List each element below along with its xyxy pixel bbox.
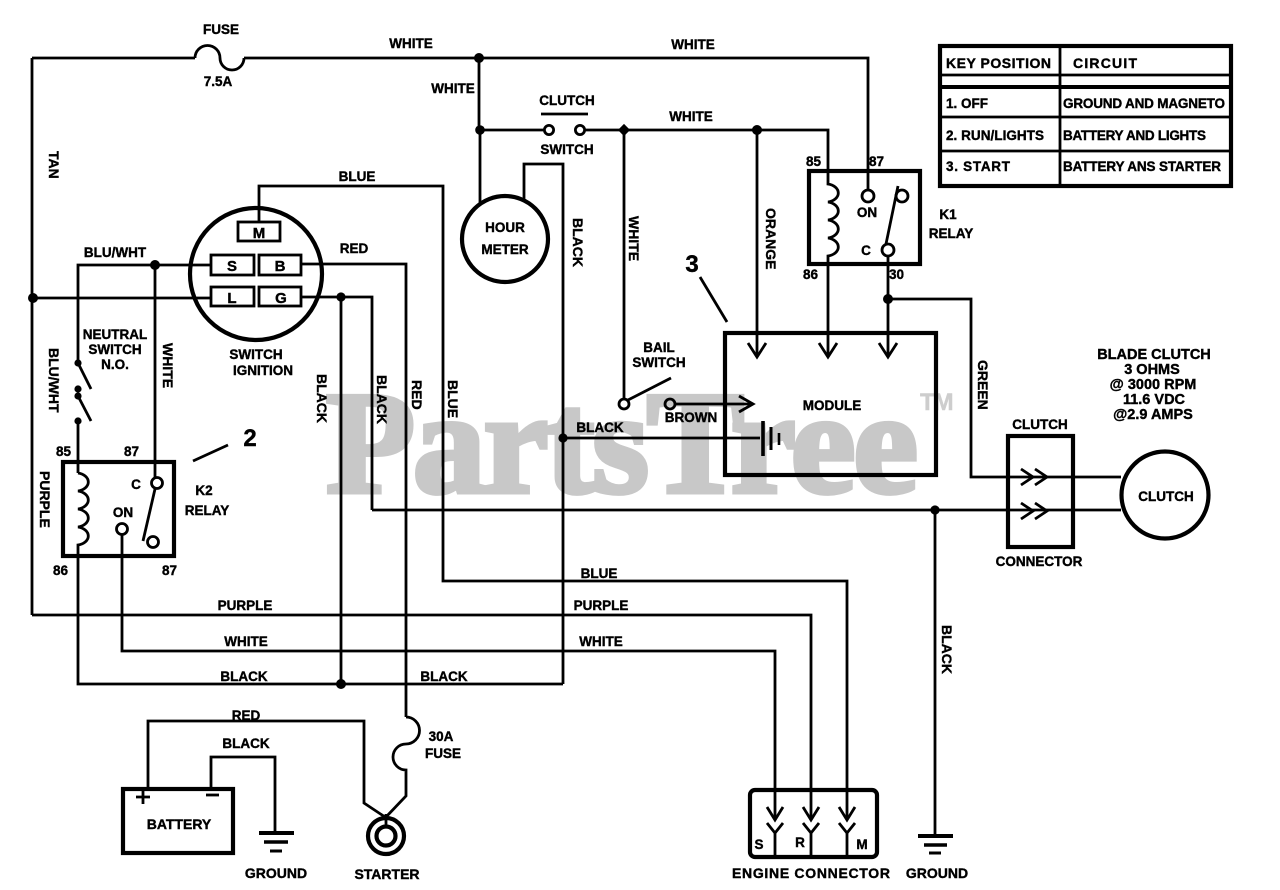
terminal S box xyxy=(211,255,254,275)
svg-text:87: 87 xyxy=(124,444,139,459)
svg-text:WHITE: WHITE xyxy=(579,634,623,649)
terminal M box xyxy=(238,222,280,242)
svg-text:NEUTRAL: NEUTRAL xyxy=(83,327,148,342)
svg-text:KEY POSITION: KEY POSITION xyxy=(946,55,1051,71)
svg-text:ORANGE: ORANGE xyxy=(763,208,779,269)
connector chevrons black line xyxy=(1021,503,1047,519)
wire blue from M up and right xyxy=(259,186,847,820)
wire K1 30 down xyxy=(887,256,890,355)
svg-text:GREEN: GREEN xyxy=(975,360,991,410)
svg-text:@ 3000 RPM: @ 3000 RPM xyxy=(1110,377,1197,393)
svg-text:CLUTCH: CLUTCH xyxy=(1138,489,1194,504)
svg-text:WHITE: WHITE xyxy=(669,109,713,124)
bail switch contact xyxy=(619,378,671,409)
engine connector pin S xyxy=(754,807,783,855)
wire top white bus right to K1 87 xyxy=(244,58,868,190)
svg-text:ENGINE CONNECTOR: ENGINE CONNECTOR xyxy=(732,865,890,881)
svg-text:PURPLE: PURPLE xyxy=(218,598,273,613)
svg-text:86: 86 xyxy=(53,563,69,578)
wire K2 86 black down right xyxy=(78,556,563,684)
node junction 30/green xyxy=(883,294,893,304)
clutch connector box xyxy=(1008,436,1073,547)
wire black to module ground xyxy=(563,437,760,440)
wire B to red vertical xyxy=(301,264,406,717)
svg-text:BATTERY: BATTERY xyxy=(147,816,212,832)
svg-text:RELAY: RELAY xyxy=(929,226,974,241)
wire top white bus xyxy=(32,57,195,60)
starter M1 xyxy=(354,814,419,882)
svg-text:PURPLE: PURPLE xyxy=(574,598,629,613)
svg-text:BLUE: BLUE xyxy=(581,566,618,581)
wire green to clutch connector xyxy=(888,299,1121,477)
ground engine xyxy=(906,836,968,881)
node junction S white tap xyxy=(150,260,160,270)
wire black down to engine ground xyxy=(934,510,937,836)
engine connector pin R xyxy=(795,807,819,855)
svg-text:METER: METER xyxy=(481,242,529,257)
svg-text:STARTER: STARTER xyxy=(354,866,419,882)
wire K2 ON white down right xyxy=(122,535,775,820)
svg-text:BLACK: BLACK xyxy=(314,374,330,423)
svg-text:BLU/WHT: BLU/WHT xyxy=(84,245,147,260)
key position table xyxy=(940,46,1231,186)
svg-text:CIRCUIT: CIRCUIT xyxy=(1073,55,1137,71)
svg-text:RED: RED xyxy=(409,380,425,410)
svg-text:GROUND: GROUND xyxy=(245,865,307,881)
svg-text:BROWN: BROWN xyxy=(665,410,718,425)
ground battery xyxy=(245,833,307,881)
node junction G black tap xyxy=(336,292,345,301)
svg-text:N.O.: N.O. xyxy=(101,357,129,372)
wire black row to clutch connector xyxy=(372,509,1121,512)
watermark PartsTree xyxy=(326,362,953,524)
svg-text:87: 87 xyxy=(162,563,177,578)
svg-text:WHITE: WHITE xyxy=(160,343,176,388)
relay K1 C terminal xyxy=(882,244,894,256)
svg-text:S: S xyxy=(754,837,763,852)
relay K1 ON terminal xyxy=(862,190,874,202)
svg-text:S: S xyxy=(227,258,237,275)
neutral switch contacts xyxy=(74,359,91,424)
svg-text:87: 87 xyxy=(869,154,884,169)
ignition switch circle xyxy=(190,208,322,340)
svg-text:BLUE: BLUE xyxy=(445,380,461,418)
svg-text:CLUTCH: CLUTCH xyxy=(539,93,595,108)
relay K2 arm xyxy=(143,489,155,541)
connector chevrons green line xyxy=(1021,469,1047,485)
wire clutch switch to K1 85 xyxy=(585,130,828,172)
wire neutral switch to K2 85 xyxy=(77,421,80,473)
svg-text:3. START: 3. START xyxy=(946,159,1011,174)
wire red battery row xyxy=(148,721,385,817)
svg-text:K2: K2 xyxy=(195,483,212,498)
arrowhead 86 into module xyxy=(819,343,837,357)
svg-text:WHITE: WHITE xyxy=(626,216,642,261)
label 3 pointer xyxy=(700,277,727,322)
svg-text:SWITCH: SWITCH xyxy=(88,342,141,357)
svg-text:BLACK: BLACK xyxy=(570,218,586,267)
svg-text:WHITE: WHITE xyxy=(389,36,433,51)
label 2 pointer xyxy=(193,445,228,461)
svg-text:30A: 30A xyxy=(429,729,454,744)
wire hour meter feed xyxy=(479,130,482,204)
svg-text:30: 30 xyxy=(889,267,904,282)
svg-text:GROUND: GROUND xyxy=(906,865,968,881)
node junction black module ground xyxy=(558,433,567,442)
svg-text:1. OFF: 1. OFF xyxy=(946,96,988,111)
svg-text:85: 85 xyxy=(56,444,72,459)
svg-text:BLACK: BLACK xyxy=(220,669,267,684)
wire orange down to module xyxy=(756,130,759,355)
svg-text:BLACK: BLACK xyxy=(576,420,623,435)
svg-text:3 OHMS: 3 OHMS xyxy=(1124,362,1180,378)
wire black from G junction down xyxy=(340,297,343,684)
svg-text:WHITE: WHITE xyxy=(224,634,268,649)
wire white drop to clutch switch row xyxy=(479,58,544,130)
svg-text:FUSE: FUSE xyxy=(425,746,461,761)
svg-text:BLACK: BLACK xyxy=(374,375,390,424)
fuse F1 7.5A symbol xyxy=(195,46,244,71)
svg-text:GROUND AND MAGNETO: GROUND AND MAGNETO xyxy=(1063,96,1225,111)
relay K2 C terminal xyxy=(152,478,163,489)
fuse F2 30A symbol xyxy=(386,717,420,817)
svg-text:RED: RED xyxy=(232,708,261,723)
svg-text:SWITCH: SWITCH xyxy=(229,347,282,362)
svg-text:ON: ON xyxy=(857,205,877,220)
wire hour meter black loop down xyxy=(524,164,563,684)
svg-text:WHITE: WHITE xyxy=(671,37,715,52)
wire left TAN border down to purple row xyxy=(31,58,34,615)
label BLADE CLUTCH block xyxy=(1097,347,1211,423)
svg-text:2. RUN/LIGHTS: 2. RUN/LIGHTS xyxy=(946,128,1044,143)
svg-text:BATTERY AND LIGHTS: BATTERY AND LIGHTS xyxy=(1063,128,1206,143)
wire left border to L xyxy=(33,297,211,300)
node junction orange tap xyxy=(752,125,762,135)
svg-text:HOUR: HOUR xyxy=(485,220,525,235)
wire blu/wht to S xyxy=(78,265,211,363)
svg-text:TAN: TAN xyxy=(46,151,62,179)
svg-text:CLUTCH: CLUTCH xyxy=(1012,417,1068,432)
svg-text:R: R xyxy=(795,835,805,850)
arrowhead orange into module xyxy=(748,343,766,357)
svg-text:BAIL: BAIL xyxy=(643,340,675,355)
hour meter HM1 xyxy=(462,196,548,282)
arrowhead 30 into module xyxy=(879,343,897,357)
wire purple row xyxy=(32,615,811,820)
svg-text:IGNITION: IGNITION xyxy=(233,363,293,378)
wire white down to bail switch xyxy=(623,130,626,398)
ground symbol in module xyxy=(763,421,779,456)
svg-text:L: L xyxy=(227,290,236,307)
svg-text:B: B xyxy=(275,258,286,275)
relay K1 box xyxy=(809,171,920,264)
module U1 box xyxy=(725,333,936,475)
terminal B box xyxy=(259,255,301,275)
clutch circle xyxy=(1122,452,1209,539)
svg-text:K1: K1 xyxy=(939,207,957,222)
svg-text:7.5A: 7.5A xyxy=(204,74,233,89)
svg-text:BATTERY ANS STARTER: BATTERY ANS STARTER xyxy=(1063,159,1221,174)
svg-text:BLACK: BLACK xyxy=(222,736,269,751)
svg-text:BLUE: BLUE xyxy=(339,169,376,184)
svg-text:11.6 VDC: 11.6 VDC xyxy=(1123,392,1186,408)
svg-text:C: C xyxy=(861,243,871,258)
battery BT1 box xyxy=(123,789,233,853)
relay K1 NO terminal xyxy=(896,190,908,202)
svg-text:RED: RED xyxy=(340,241,369,256)
wire G to black verticals xyxy=(301,297,372,510)
terminal G box xyxy=(259,287,301,307)
relay K2 NO terminal xyxy=(148,537,159,548)
terminal L box xyxy=(211,287,254,307)
wire K1 86 to module arrow xyxy=(827,264,830,355)
engine connector pin M xyxy=(839,807,868,855)
engine connector box xyxy=(750,790,877,857)
node junction top white xyxy=(474,53,484,63)
svg-text:FUSE: FUSE xyxy=(203,22,239,37)
svg-text:PURPLE: PURPLE xyxy=(37,471,53,528)
svg-text:ON: ON xyxy=(113,505,133,520)
wire white down to K2 C xyxy=(154,265,157,477)
svg-text:M: M xyxy=(253,225,266,242)
relay K2 ON terminal xyxy=(117,524,128,535)
svg-text:BLU/WHT: BLU/WHT xyxy=(46,348,62,413)
label NEUTRAL SWITCH N.O. xyxy=(83,327,148,372)
node junction white/bail xyxy=(618,124,630,136)
svg-text:CONNECTOR: CONNECTOR xyxy=(996,554,1083,569)
relay K2 box xyxy=(63,462,174,556)
node junction black row xyxy=(336,679,346,689)
svg-text:WHITE: WHITE xyxy=(431,81,475,96)
svg-text:SWITCH: SWITCH xyxy=(632,355,685,370)
svg-text:2: 2 xyxy=(243,425,256,452)
node junction left border L tap xyxy=(28,293,38,303)
svg-text:G: G xyxy=(275,290,287,307)
svg-text:3: 3 xyxy=(685,251,698,278)
svg-text:M: M xyxy=(856,837,867,852)
svg-text:86: 86 xyxy=(803,267,819,282)
relay K1 coil xyxy=(828,172,838,264)
svg-text:RELAY: RELAY xyxy=(185,503,230,518)
svg-text:MODULE: MODULE xyxy=(803,398,862,413)
svg-text:@2.9 AMPS: @2.9 AMPS xyxy=(1113,407,1193,423)
node junction black engine ground xyxy=(930,505,939,514)
svg-text:BLACK: BLACK xyxy=(939,625,955,674)
svg-text:BLACK: BLACK xyxy=(420,669,467,684)
svg-text:BLADE CLUTCH: BLADE CLUTCH xyxy=(1097,347,1211,363)
clutch switch SW1 xyxy=(539,93,595,157)
svg-text:85: 85 xyxy=(806,154,822,169)
brown contact and arrow into module xyxy=(665,396,753,425)
relay K2 coil xyxy=(78,473,88,556)
node junction hour meter tap xyxy=(475,125,485,135)
svg-text:SWITCH: SWITCH xyxy=(540,142,593,157)
svg-text:C: C xyxy=(131,477,141,492)
relay K1 arm xyxy=(886,186,898,244)
wire battery negative black xyxy=(211,757,275,831)
